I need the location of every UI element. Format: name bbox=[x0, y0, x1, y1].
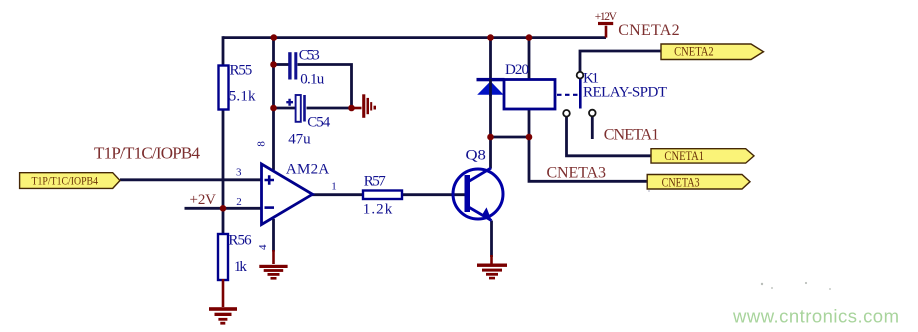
wire pin4 vertical bbox=[272, 219, 275, 252]
svg-text:3: 3 bbox=[236, 167, 242, 179]
port CNETA3 bbox=[647, 175, 750, 190]
relay dashed link bbox=[557, 94, 579, 96]
svg-text:D20: D20 bbox=[505, 62, 529, 78]
wire relay bottom link bbox=[491, 136, 530, 139]
svg-text:0.1u: 0.1u bbox=[300, 72, 325, 88]
resistor R55 bbox=[219, 66, 229, 110]
wire C54 right bbox=[307, 107, 352, 110]
svg-text:CNETA2: CNETA2 bbox=[618, 22, 679, 39]
svg-text:47u: 47u bbox=[288, 132, 311, 148]
wire R55 bottom to +2V junction to R56 bbox=[222, 109, 225, 235]
svg-text:CNETA3: CNETA3 bbox=[662, 175, 700, 189]
earth ground (right of C54) bbox=[352, 107, 362, 110]
wire coil top pin bbox=[528, 36, 531, 80]
resistor R56 bbox=[218, 234, 228, 280]
port CNETA2 bbox=[661, 44, 764, 60]
junction C54 left bbox=[270, 105, 277, 112]
junction top rail / relay coil branch bbox=[526, 34, 533, 41]
svg-text:4: 4 bbox=[257, 244, 269, 250]
junction D20 / Q8 collector bbox=[487, 134, 494, 141]
svg-text:R57: R57 bbox=[364, 174, 387, 190]
junction top rail / D20 branch bbox=[487, 34, 494, 41]
svg-text:+2V: +2V bbox=[190, 192, 217, 208]
svg-text:C54: C54 bbox=[307, 115, 331, 131]
wire C53 left bbox=[274, 63, 289, 66]
wire Q8 emitter down bbox=[490, 221, 493, 258]
relay lever bbox=[579, 78, 582, 108]
wire top rail bbox=[223, 36, 606, 39]
relay common contact circle bbox=[577, 72, 584, 79]
junction C53/C54 right at earth bbox=[348, 105, 355, 112]
capacitor C54 (electrolytic) bbox=[296, 95, 301, 122]
svg-text:CNETA3: CNETA3 bbox=[547, 165, 607, 182]
wire C54 left bbox=[274, 107, 296, 110]
wire opamp out to R57 bbox=[312, 193, 363, 196]
svg-text:www.cntronics.com: www.cntronics.com bbox=[732, 306, 899, 327]
relay coil K1 bbox=[504, 80, 555, 110]
ground (R56) bbox=[222, 279, 225, 307]
wire CNETA2 run bbox=[580, 51, 662, 72]
transistor Q8 bbox=[453, 169, 503, 219]
wire D20 top bbox=[489, 36, 492, 78]
diode D20 bbox=[477, 78, 505, 81]
wire pin8 vertical bbox=[272, 36, 275, 170]
svg-text:CNETA2: CNETA2 bbox=[674, 45, 714, 59]
svg-text:C53: C53 bbox=[299, 48, 320, 64]
ground (Q8 emitter) bbox=[490, 255, 493, 264]
wire R57 to Q8 base bbox=[402, 193, 466, 196]
ground (op-amp pin4) bbox=[272, 250, 275, 264]
svg-text:CNETA1: CNETA1 bbox=[664, 149, 704, 163]
resistor R57 bbox=[363, 191, 402, 200]
svg-text:R55: R55 bbox=[230, 63, 253, 79]
relay throw contact circle 2 bbox=[589, 110, 596, 117]
svg-text:8: 8 bbox=[255, 141, 267, 147]
junction top rail / C53 branch bbox=[271, 34, 278, 41]
wire throw2 stub bbox=[591, 117, 594, 140]
wire throw1 to CNETA1 bbox=[567, 117, 653, 156]
svg-text:+12V: +12V bbox=[595, 11, 618, 23]
wire pin3 input bbox=[120, 178, 262, 181]
junction coil pin / CNETA3 branch bbox=[526, 134, 533, 141]
svg-text:R56: R56 bbox=[228, 233, 252, 249]
wire CNETA3 run bbox=[529, 137, 648, 181]
svg-text:2: 2 bbox=[236, 196, 242, 208]
wire R55 top stub bbox=[222, 36, 225, 66]
junction +2V / R55 / R56 node bbox=[220, 205, 227, 212]
wire D20 bottom bbox=[489, 94, 492, 138]
op-amp AM2A bbox=[262, 164, 313, 225]
svg-text:1: 1 bbox=[331, 181, 337, 193]
svg-text:1k: 1k bbox=[234, 259, 248, 275]
junction C53 left bbox=[270, 61, 277, 68]
wire C53 right corner down bbox=[298, 65, 352, 109]
svg-text:T1P/T1C/IOPB4: T1P/T1C/IOPB4 bbox=[32, 174, 99, 188]
svg-text:CNETA1: CNETA1 bbox=[604, 127, 660, 144]
port T1P/T1C/IOPB4 bbox=[20, 173, 120, 189]
svg-text:T1P/T1C/IOPB4: T1P/T1C/IOPB4 bbox=[94, 144, 201, 163]
svg-text:1.2k: 1.2k bbox=[363, 202, 393, 218]
svg-text:5.1k: 5.1k bbox=[229, 89, 256, 105]
relay throw contact circle 1 bbox=[563, 110, 570, 117]
wire pin2 +2V bbox=[185, 207, 263, 210]
port CNETA1 bbox=[651, 149, 754, 163]
capacitor C53 bbox=[288, 52, 291, 79]
wire coil bottom pin bbox=[528, 109, 531, 138]
wire Q8 collector up bbox=[489, 137, 492, 169]
svg-text:Q8: Q8 bbox=[466, 148, 486, 164]
svg-text:RELAY-SPDT: RELAY-SPDT bbox=[583, 85, 667, 101]
svg-text:AM2A: AM2A bbox=[286, 162, 329, 178]
